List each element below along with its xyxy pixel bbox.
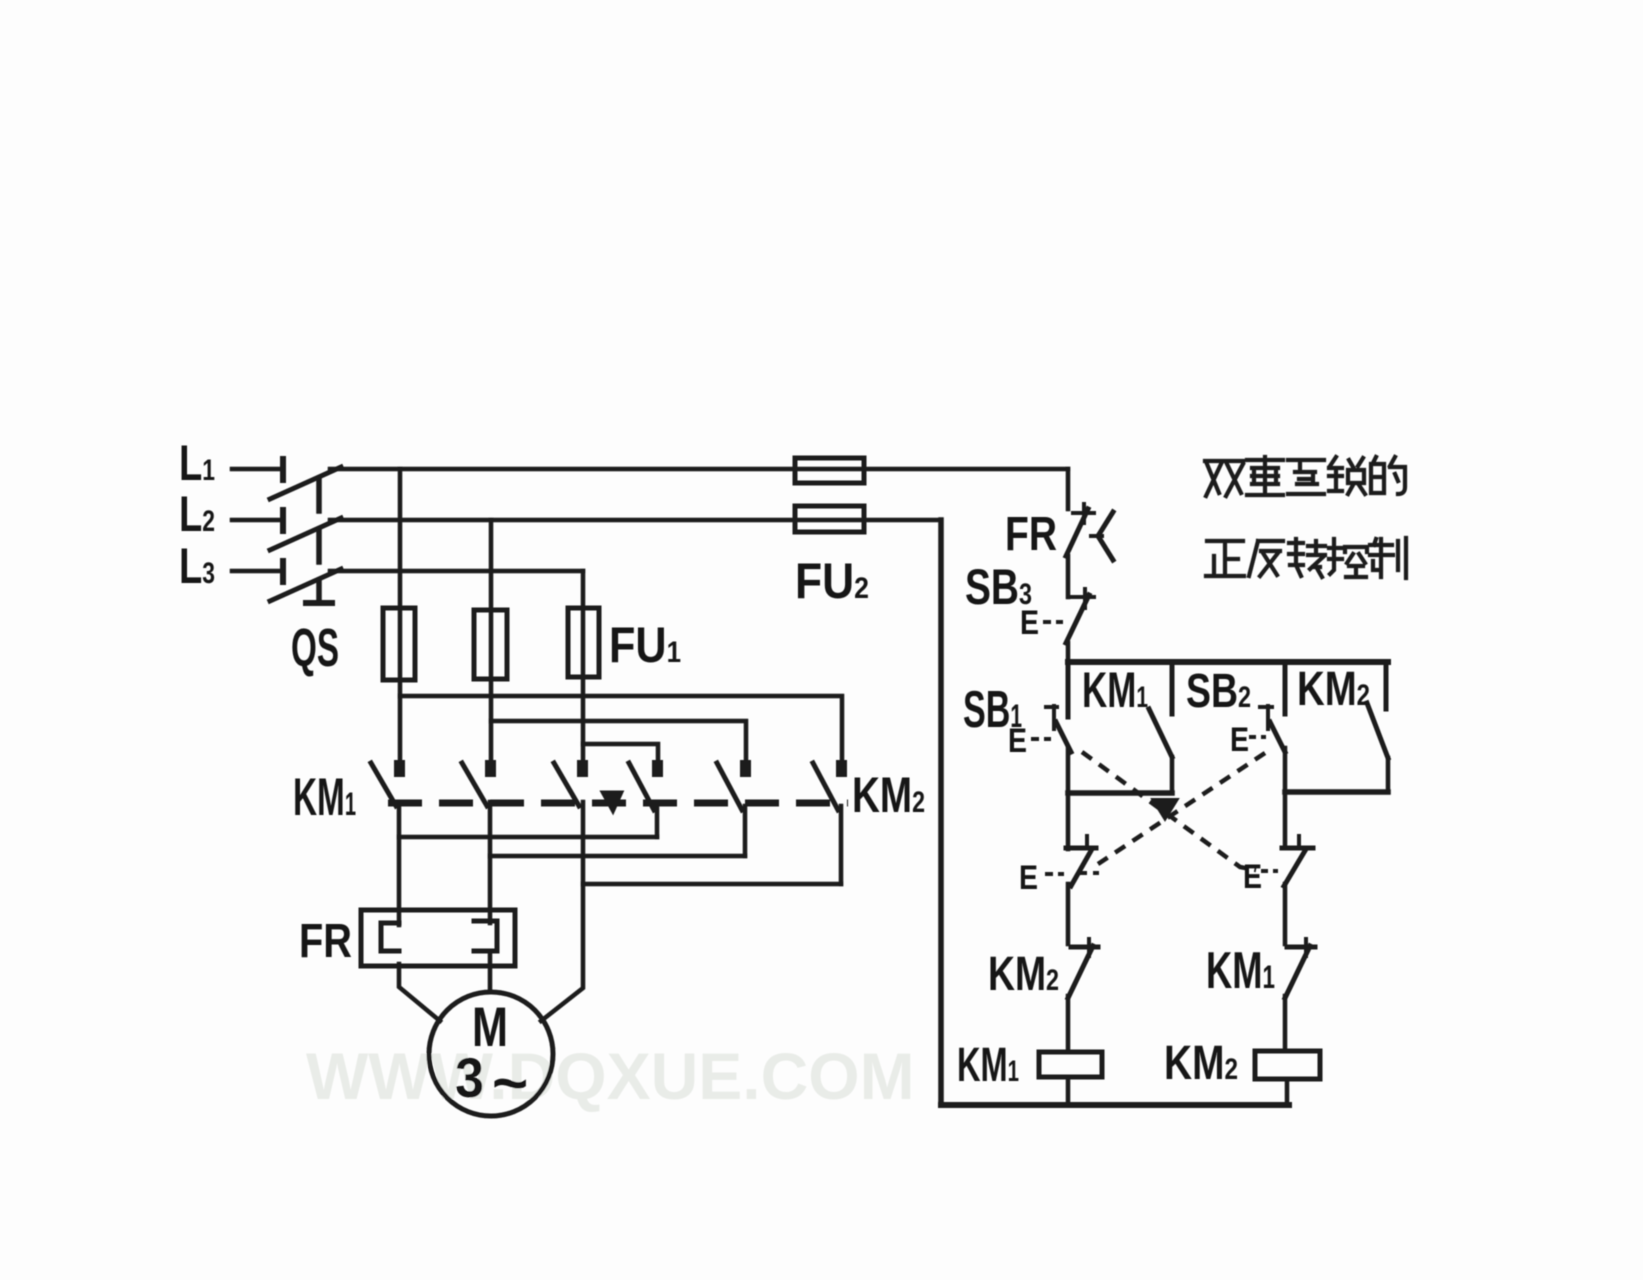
svg-text:KM1: KM1 [293,768,356,827]
junction bar branches 1-2 [1068,790,1172,796]
svg-text:KM2: KM2 [1164,1037,1238,1090]
svg-text:SB2: SB2 [1186,665,1251,718]
svg-text:FU2: FU2 [795,553,869,609]
svg-text:E: E [1230,721,1249,759]
wire contact2 bottom to FR [488,802,493,923]
svg-text:KM2: KM2 [852,767,925,823]
SB3 blade [1066,595,1089,643]
SB2 NC seat [1066,846,1096,851]
KM1 main contact 2 blade [462,763,487,806]
wire branch3 lower [1283,748,1288,845]
svg-text:~: ~ [492,1049,528,1118]
KM2 main contact 5 dot [740,760,751,777]
wire L1 bus [330,467,1068,472]
thermal relay FR box [361,910,515,966]
KM2 main contact 4 blade [629,763,654,810]
SB1 blade [1056,722,1071,752]
branch 3 stub [1283,662,1288,714]
SB2 fixed tick [1266,706,1270,729]
SB1 NC seat [1282,846,1313,851]
fuse FU2 upper [795,458,864,483]
SB1 NC stub [1297,836,1301,848]
svg-text:FR: FR [299,915,352,968]
branch 1 stub [1066,662,1071,717]
fuse FU2 lower [795,506,864,532]
chinese char zhuan [1289,539,1325,577]
chinese char de [1371,457,1405,494]
FR contact blade [1066,509,1088,556]
SB3 stub [1083,589,1087,608]
svg-text:KM2: KM2 [1297,663,1370,716]
svg-text:E: E [1020,604,1039,642]
wire coil KM2 bottom [1285,1079,1290,1105]
wire L2 drop to FU1 [489,520,494,761]
SB2 NC blade [1071,849,1092,886]
wire L2 lead [232,518,281,523]
FR contact seat tick [1073,511,1094,515]
wire branch3 lower2 [1283,884,1288,944]
wire branch2 bottom [1170,757,1175,793]
chinese char zhi [1370,538,1406,578]
wire V motor lead [488,951,493,992]
interlock dashed link SB1 to right NC [1082,752,1256,870]
wire branch1 lower2 [1066,884,1071,944]
chinese char fan [1249,541,1283,576]
chinese char hu [1288,460,1324,494]
SB1 NC blade [1284,849,1306,886]
wire crossover V phase [490,854,745,859]
KM2 interlock NC seat [1071,945,1098,950]
QS linkage segment pole 3 [316,581,322,602]
svg-text:L2: L2 [179,486,215,542]
chinese char kong [1329,539,1367,577]
coil KM2 [1255,1051,1320,1079]
svg-text:KM2: KM2 [988,948,1059,1001]
wire L3 branch to KM2 contact 4 [583,744,658,761]
wire contact3 bottom to motor [541,802,583,1021]
KM2 interlock NC stub [1087,939,1091,956]
svg-text:QS: QS [291,618,339,678]
svg-text:3: 3 [455,1046,484,1109]
wire branch3 to coil KM2 [1283,996,1288,1051]
FR contact stub [1082,504,1086,523]
wire SB3 to bar [1066,643,1071,665]
wire contact1 bottom to FR [397,802,402,925]
fuse FU1 pole2 [474,610,507,679]
KM1 main contact 3 blade [554,763,579,806]
KM2 main contact 6 dot [836,760,847,777]
fuse FU1 pole3 [568,608,599,677]
KM1 main contact 3 dot [577,760,588,777]
SB3 seat tick [1072,595,1094,599]
svg-text:KM1: KM1 [1082,662,1148,718]
motor M circle [429,992,553,1116]
switch QS blade pole 2 [270,518,341,550]
chinese char zheng [1206,541,1244,576]
wire control rail left [938,520,944,1105]
svg-text:WWW.DQXUE.COM: WWW.DQXUE.COM [306,1039,915,1113]
svg-text:E: E [1019,859,1038,897]
coil KM1 [1039,1052,1102,1077]
wire L2 bus [330,518,941,523]
terminal tick L1 [280,459,286,480]
wire branch1 lower [1066,793,1071,849]
KM1 interlock NC seat [1287,945,1315,950]
chinese char shuang [1205,461,1243,496]
KM2 aux contact blade [1367,703,1388,758]
KM1 main contact 1 dot [394,760,405,777]
KM1 interlock NC stub [1304,939,1308,956]
fuse FU1 pole1 [383,608,415,680]
QS linkage T bar [306,600,332,606]
wire L1 branch to KM2 contact 6 [400,696,842,761]
wire L1 drop to FU1 [398,469,403,761]
chinese char zhong [1247,457,1283,495]
wire contact6 bottom [839,806,844,884]
svg-text:FU1: FU1 [609,617,681,673]
KM linkage triangle [602,792,622,812]
SB2 actuator dashes [1249,735,1266,739]
wire L3 bus [330,569,583,574]
SB2 NC stub [1085,836,1089,848]
KM linkage dashed line [388,800,848,807]
wire control bottom bus [941,1102,1289,1108]
KM2 interlock NC blade [1068,946,1093,998]
svg-text:FR: FR [1005,508,1057,561]
QS linkage segment pole 2 [316,530,322,562]
wire branch1 mid [1066,748,1071,793]
SB1 NC actuator dashes [1261,869,1278,873]
branch 2 stub [1170,662,1175,714]
chinese char suo [1329,457,1365,494]
KM1 interlock NC blade [1285,946,1310,998]
wire L3 drop to FU1 [581,571,586,761]
KM2 main contact 4 dot [652,760,663,777]
SB2 NC actuator dashes [1045,872,1064,876]
svg-text:KM1: KM1 [1206,942,1275,1000]
svg-text:KM1: KM1 [957,1039,1019,1092]
wire L3 lead [232,569,281,574]
SB3 actuator dashes [1043,620,1063,624]
wire L2 branch to KM2 contact 5 [491,721,746,761]
wire L1 lead [232,467,281,472]
terminal tick L2 [280,510,286,531]
svg-text:E: E [1008,722,1027,760]
SB1 fixed tick [1052,706,1056,729]
interlock cross arrow [1152,799,1178,820]
FR contact release hook [1098,512,1113,560]
wire control feed drop [1066,469,1071,509]
svg-text:E: E [1243,858,1262,896]
junction bar branches 3-4 [1285,789,1388,795]
QS linkage segment pole 1 [316,479,322,511]
wire coil KM1 bottom [1066,1077,1071,1105]
control top bar [1068,659,1388,665]
wire crossover U phase [399,835,657,840]
wire crossover W phase [583,882,841,887]
FR heater element left [381,923,399,951]
wire contact5 bottom [743,806,748,856]
KM1 main contact 1 blade [371,763,396,806]
wire branch1 to coil KM1 [1066,996,1071,1052]
interlock dashed link SB2 to left NC [1098,753,1265,864]
SB2 blade [1270,722,1285,752]
FR contact hook tick [1091,534,1102,538]
FR heater element right [474,921,497,951]
switch QS blade pole 3 [270,569,341,601]
SB2 tick cap [1260,705,1272,709]
KM2 main contact 6 blade [813,763,838,810]
KM2 main contact 5 blade [717,763,742,810]
wire contact4 bottom [655,806,660,837]
svg-text:L1: L1 [179,435,215,491]
branch 4 stub [1384,662,1389,709]
SB1 tick cap [1046,705,1057,709]
KM1 main contact 2 dot [485,760,496,777]
terminal tick L3 [280,561,286,582]
wire FR to SB3 [1066,556,1071,597]
switch QS blade pole 1 [270,467,341,499]
wire U motor lead [399,964,440,1021]
SB1 actuator dashes [1031,737,1051,741]
svg-text:L3: L3 [179,538,215,594]
wire branch4 bottom [1386,758,1391,792]
KM1 aux contact blade [1149,709,1172,757]
